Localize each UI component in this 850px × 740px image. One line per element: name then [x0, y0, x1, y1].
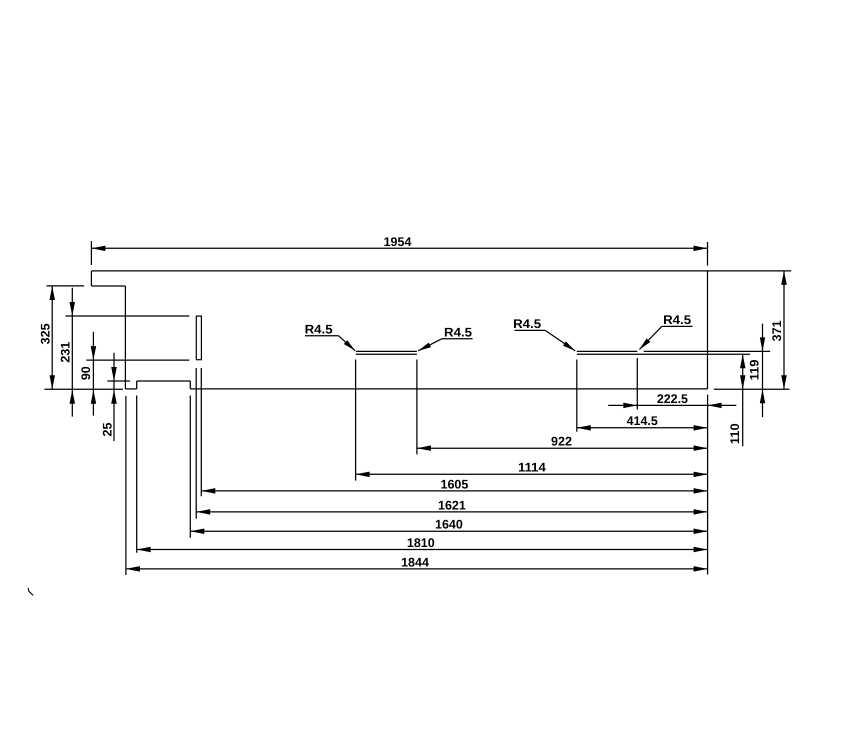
groove 2 lower plateau line and 110 extension — [577, 353, 750, 355]
dimension 1810 right arrow — [694, 547, 708, 552]
90 top extension line — [86, 359, 189, 361]
25 top extension line — [107, 380, 130, 382]
dimension 414.5 line — [577, 427, 708, 429]
rib left extension line — [195, 368, 197, 519]
dimension 119 label — [748, 360, 762, 381]
dimension 1640 left arrow — [190, 529, 204, 535]
groove2 right extension line — [636, 358, 638, 410]
part top edge and 371 top extension line — [91, 270, 791, 272]
dimension 1954 right arrow — [694, 246, 708, 252]
plateau right extension line — [189, 396, 191, 538]
svg-text:922: 922 — [551, 435, 572, 449]
231 top extension line — [65, 315, 189, 317]
part left upper edge — [90, 271, 92, 286]
left bottom extension line — [44, 388, 123, 390]
dimension 325 top arrow — [50, 286, 56, 300]
plateau left extension line — [136, 396, 138, 553]
dimension 371 top arrow — [781, 271, 787, 285]
bottom plateau right edge — [189, 381, 191, 389]
dimension 90 line — [92, 332, 94, 416]
right bottom extension line — [714, 388, 790, 390]
dimension 25 top arrow — [111, 367, 117, 381]
svg-text:1114: 1114 — [518, 461, 546, 475]
radius leader R4.5 pointer — [545, 330, 575, 351]
dimension 1844 right arrow — [694, 566, 708, 572]
radius leader R4.5 pointer — [639, 326, 661, 349]
dimension 1114 left arrow — [356, 472, 370, 478]
groove1 left extension line — [355, 360, 357, 481]
dimension 222.5 left arrow — [623, 403, 637, 409]
1954 right extension line — [707, 242, 709, 266]
radius leader R4.5 underline — [442, 338, 473, 340]
stray tick mark — [28, 588, 33, 596]
dimension 119 line — [762, 324, 764, 417]
dimension 110 top arrow — [740, 354, 746, 368]
dimension 1954 line — [91, 247, 707, 249]
svg-text:1954: 1954 — [384, 235, 412, 249]
dimension 222.5 line — [608, 404, 736, 406]
dimension 231 bottom arrow — [70, 390, 76, 404]
svg-text:110: 110 — [728, 423, 742, 444]
bottom plateau left edge — [136, 381, 138, 389]
svg-text:R4.5: R4.5 — [444, 325, 472, 339]
dimension 110 label — [728, 423, 742, 444]
dimension 1844 left arrow — [126, 566, 140, 572]
bottom plateau top edge — [137, 380, 191, 382]
radius leader R4.5 underline — [662, 325, 693, 327]
svg-text:1605: 1605 — [441, 477, 469, 491]
1954 left extension line — [90, 241, 92, 265]
dimension 1640 right arrow — [694, 529, 708, 535]
dimension 90 label — [79, 366, 93, 380]
groove 2 upper plateau line — [577, 350, 638, 352]
svg-text:325: 325 — [39, 323, 53, 344]
dimension 1114 right arrow — [694, 472, 708, 478]
svg-text:231: 231 — [59, 342, 73, 363]
dimension 110 line — [742, 354, 744, 446]
dimension 1605 line — [201, 490, 707, 492]
dimension 371 bottom arrow — [781, 375, 787, 389]
radius leader R4.5 underline — [515, 329, 546, 331]
dimension 231 label — [59, 342, 73, 363]
dimension 1621 right arrow — [694, 509, 708, 514]
part bottom edge left of plateau — [125, 388, 136, 390]
groove1 right extension line — [416, 360, 418, 455]
radius leader R4.5 pointer — [418, 339, 442, 351]
dimension 371 line — [783, 271, 785, 389]
dimension 25 line — [113, 353, 115, 441]
groove 1 lower plateau line — [356, 353, 417, 355]
dimension 1621 left arrow — [196, 509, 210, 514]
dimension 222.5 right arrow — [708, 403, 722, 409]
dimension 231 line — [71, 288, 73, 417]
dimension 1810 line — [137, 549, 708, 551]
part bottom edge — [190, 388, 707, 390]
svg-text:414.5: 414.5 — [627, 414, 658, 428]
svg-text:1621: 1621 — [438, 498, 466, 512]
svg-text:119: 119 — [748, 360, 762, 381]
part step bottom edge — [91, 285, 125, 287]
dimension 371 label — [770, 320, 784, 341]
dimension 1114 line — [356, 473, 708, 475]
svg-text:R4.5: R4.5 — [513, 317, 541, 331]
dimension 1954 left arrow — [91, 246, 105, 252]
dimension 1621 line — [196, 511, 707, 513]
dimension 922 line — [417, 447, 708, 449]
dimension 231 top arrow — [70, 302, 76, 316]
right edge bottom extension line — [707, 395, 709, 575]
radius leader R4.5 underline — [305, 335, 339, 337]
svg-text:R4.5: R4.5 — [305, 323, 333, 337]
dimension 922 left arrow — [417, 445, 431, 451]
dimension 325 label — [39, 323, 53, 344]
dimension 414.5 left arrow — [577, 425, 591, 431]
dimension 325 bottom arrow — [50, 375, 56, 389]
dimension 119 bottom arrow — [760, 389, 765, 403]
dimension 25 bottom arrow — [111, 390, 117, 404]
dimension 325 line — [51, 286, 53, 389]
dimension 414.5 right arrow — [694, 425, 708, 431]
groove2 left extension line — [576, 360, 578, 432]
dimension 110 bottom arrow — [740, 375, 746, 389]
svg-text:222.5: 222.5 — [657, 392, 688, 406]
svg-text:1640: 1640 — [435, 518, 463, 532]
svg-text:371: 371 — [770, 320, 784, 341]
groove 1 upper plateau line — [356, 350, 417, 352]
svg-text:1844: 1844 — [401, 555, 429, 569]
rib right extension line — [200, 368, 202, 496]
dimension 1640 line — [190, 530, 707, 532]
svg-text:90: 90 — [79, 366, 93, 380]
part left wall — [124, 286, 126, 389]
dimension 1605 left arrow — [201, 488, 215, 494]
dimension 922 right arrow — [694, 445, 708, 451]
325 top extension line — [47, 285, 85, 287]
left wall bottom extension line — [125, 396, 127, 575]
line A extension to 119 dimension — [644, 350, 771, 352]
dimension 25 label — [100, 423, 114, 437]
svg-text:1810: 1810 — [407, 536, 435, 550]
dimension 1810 left arrow — [137, 547, 151, 552]
radius leader R4.5 pointer — [339, 336, 356, 351]
dimension 1605 right arrow — [694, 488, 708, 494]
rib slot rectangle — [196, 316, 201, 360]
dimension 90 bottom arrow — [91, 390, 97, 404]
dimension 90 top arrow — [91, 346, 97, 360]
dimension 1844 line — [126, 568, 708, 570]
svg-text:25: 25 — [100, 423, 114, 437]
part right edge — [707, 271, 709, 389]
svg-text:R4.5: R4.5 — [663, 313, 691, 327]
dimension 119 top arrow — [760, 337, 765, 351]
